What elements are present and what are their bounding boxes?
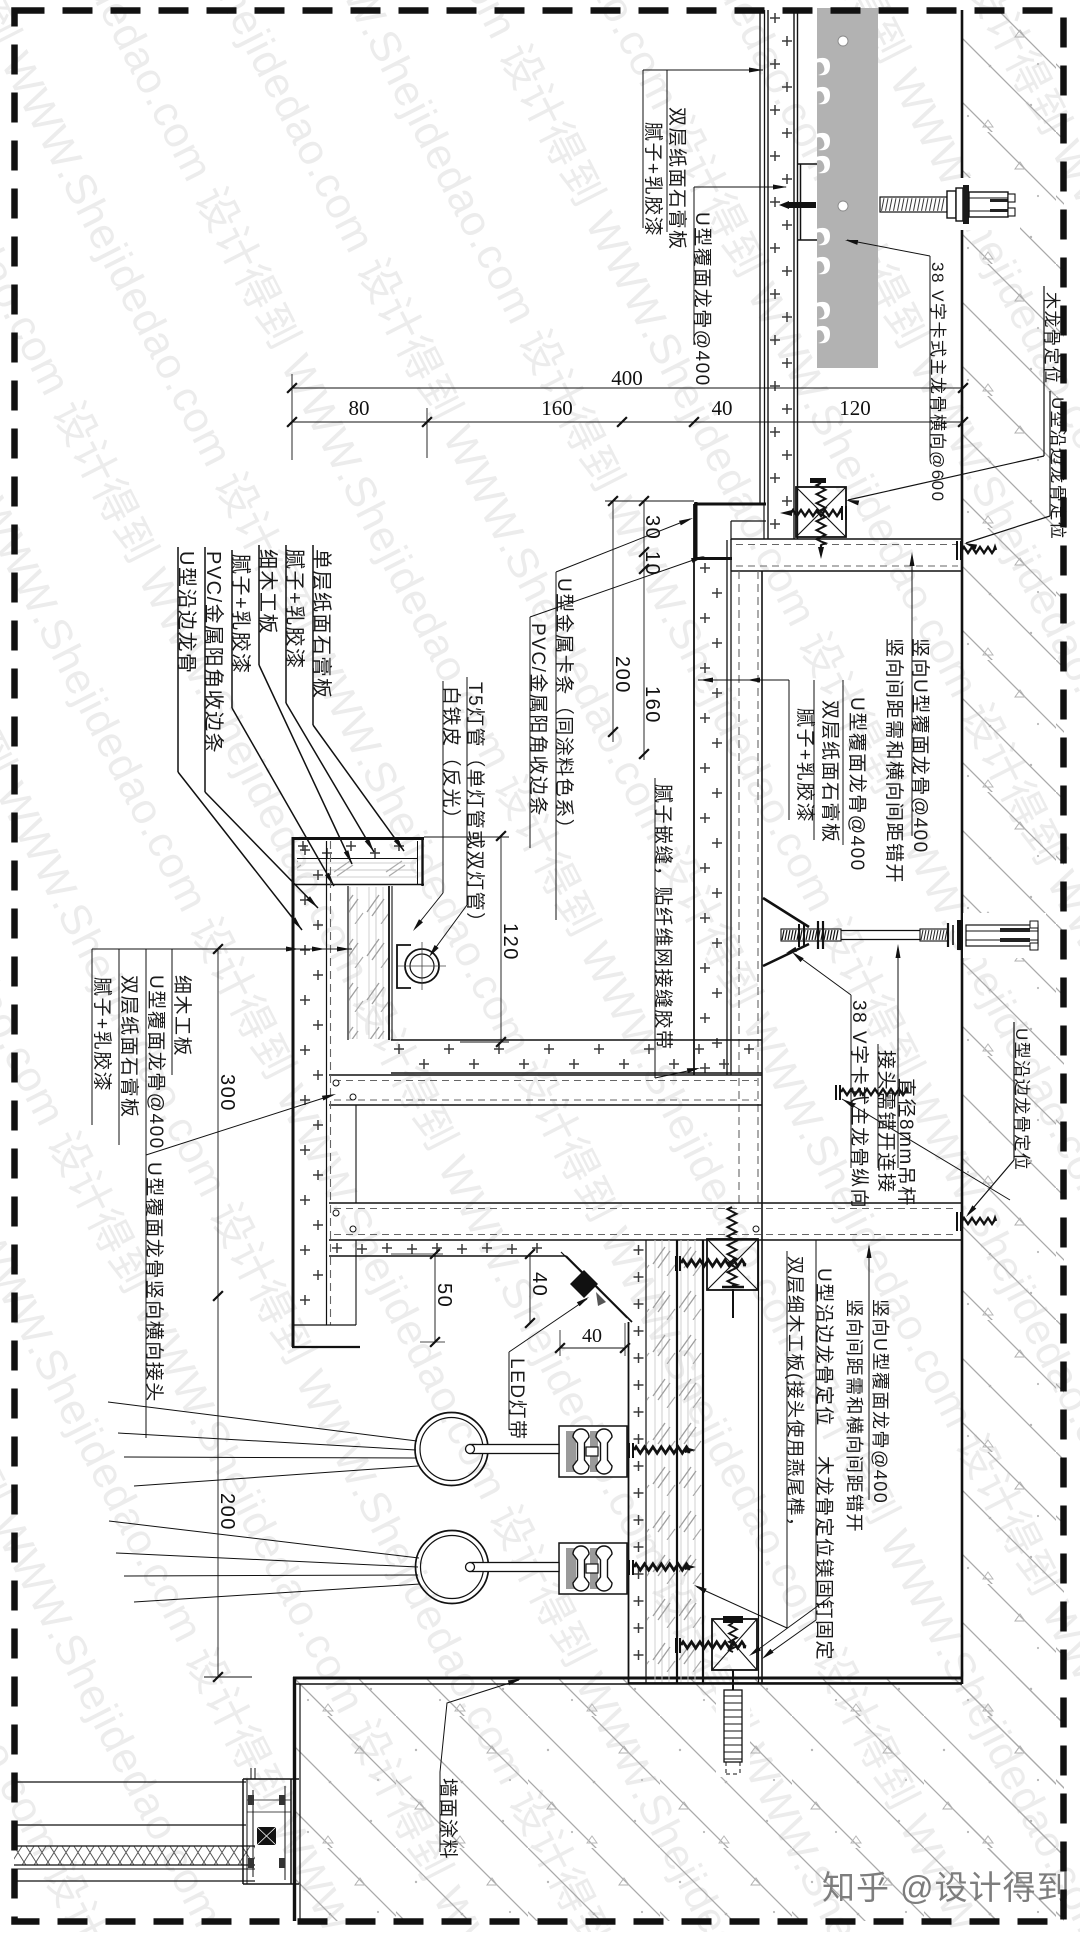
dim 200/30/10/160 vertical <box>612 501 614 742</box>
U-channel clip <box>797 163 817 165</box>
T5 lamp tube <box>405 949 439 983</box>
expansion bolt top <box>960 178 1020 230</box>
cove bottom boards <box>391 1039 762 1041</box>
svg-text:10: 10 <box>641 551 663 576</box>
svg-text:PVC/金属阳角收边条: PVC/金属阳角收边条 <box>202 551 225 754</box>
blocking screw horizontal <box>841 506 843 520</box>
batten screw 4 <box>675 1638 677 1653</box>
svg-text:40: 40 <box>582 1325 602 1347</box>
svg-text:双层纸面石膏板: 双层纸面石膏板 <box>666 107 689 251</box>
label 单层纸面石膏板 <box>312 545 314 725</box>
cross blocking box mid <box>707 1239 758 1290</box>
gypsum with plaster marks <box>634 1245 644 1255</box>
LED spot <box>570 1270 598 1298</box>
connector verticals between bands <box>355 1105 357 1203</box>
svg-text:知乎 @设计得到: 知乎 @设计得到 <box>822 1869 1071 1906</box>
label 腻子嵌缝，贴纤维网接缝胶带 <box>654 778 656 1078</box>
cove left vertical board <box>292 837 295 1347</box>
sill lines lower <box>14 1868 255 1870</box>
svg-text:300: 300 <box>216 1074 238 1112</box>
svg-text:腻子+乳胶漆: 腻子+乳胶漆 <box>91 977 113 1092</box>
window sill line 2 <box>14 1824 246 1826</box>
light rays downlight 1 <box>108 1402 417 1441</box>
dimension 400 <box>291 374 293 460</box>
label U型沿边龙骨定位 (wall top) <box>1049 391 1051 516</box>
label 接头需错开连接 <box>877 1044 879 1168</box>
cross blocking box bottom <box>712 1619 757 1670</box>
svg-text:120: 120 <box>839 396 871 420</box>
window sill line 1 <box>14 1781 246 1783</box>
svg-text:腻子+乳胶漆: 腻子+乳胶漆 <box>283 549 306 670</box>
svg-text:200: 200 <box>611 656 633 694</box>
svg-text:双层细木工板(接头使用燕尾榫，: 双层细木工板(接头使用燕尾榫， <box>785 1256 805 1537</box>
label T5灯管（单灯管或双灯管） <box>466 677 468 905</box>
downlight 2 <box>416 1531 489 1604</box>
hanger bolt rod <box>781 929 841 941</box>
drop-in anchor into slab <box>716 1685 750 1777</box>
label 墙面涂料 <box>439 1772 441 1852</box>
label U型沿边龙骨定位 (wall mid) <box>1013 1022 1015 1160</box>
joint leader <box>842 1099 1010 1200</box>
downlight 1 <box>415 1413 488 1486</box>
dim 50 <box>434 1254 436 1342</box>
svg-text:40: 40 <box>528 1272 550 1297</box>
cove top cap <box>292 837 424 840</box>
hanger rod with spring <box>728 1207 737 1286</box>
batten screw 3 <box>628 1560 630 1575</box>
main furring band with hangers <box>329 1202 962 1204</box>
svg-text:U型覆面龙骨@400: U型覆面龙骨@400 <box>846 697 868 872</box>
svg-text:U型沿边龙骨: U型沿边龙骨 <box>175 551 198 674</box>
horizontal U furring keel band <box>731 538 962 540</box>
svg-text:竖向间距需和横向间距错开: 竖向间距需和横向间距错开 <box>844 1299 864 1533</box>
svg-text:直径8mm吊杆: 直径8mm吊杆 <box>895 1078 917 1207</box>
vertical U keel dashed <box>738 571 740 1203</box>
downlight 1 stem <box>470 1445 559 1454</box>
label 竖向U型覆面龙骨@400 (bottom) <box>868 1246 870 1500</box>
svg-text:30: 30 <box>641 515 663 540</box>
svg-text:PVC/金属阳角收边条: PVC/金属阳角收边条 <box>527 623 549 817</box>
svg-text:38 V字卡式主龙骨纵向: 38 V字卡式主龙骨纵向 <box>848 1000 870 1209</box>
T5 lamp bracket <box>397 945 411 988</box>
V clip arms <box>763 898 809 927</box>
label 木龙骨定位 <box>1043 286 1045 456</box>
batten screw 1 <box>675 1256 677 1271</box>
clip screw <box>788 202 816 208</box>
label U型覆面龙骨@400 (top) <box>694 186 786 188</box>
lower keel band 1 <box>329 1074 762 1076</box>
label PVC/金属阳角收边条 (mid) <box>529 617 531 848</box>
svg-text:腻子嵌缝，贴纤维网接缝胶带: 腻子嵌缝，贴纤维网接缝胶带 <box>652 784 674 1051</box>
svg-text:U型沿边龙骨定位: U型沿边龙骨定位 <box>813 1268 835 1427</box>
keel joint screws <box>333 1080 339 1086</box>
downlight 2 stem <box>470 1563 559 1572</box>
label U型沿边龙骨定位 / 木龙骨定位镁固钉固定 <box>815 1240 817 1620</box>
svg-text:木龙骨定位: 木龙骨定位 <box>1042 292 1061 385</box>
double gypsum board with plaster marks (top band) <box>770 13 780 23</box>
light rays downlight 2 <box>109 1521 419 1558</box>
label box bottom edge <box>628 1682 962 1684</box>
dim 120 <box>500 836 502 1042</box>
hanger bolt anchor in wall <box>963 913 1046 958</box>
svg-text:腻子+乳胶漆: 腻子+乳胶漆 <box>229 554 252 675</box>
dim 300 / 200 vertical <box>217 949 219 1677</box>
insulation zigzag band <box>14 1845 255 1847</box>
label 腻子+乳胶漆 <box>285 545 287 703</box>
keel joint screw <box>835 1085 837 1100</box>
cross blocking box top <box>796 487 846 537</box>
dimensions 80 160 40 120 <box>292 421 963 423</box>
label 细木工板 <box>258 545 260 665</box>
label U型金属卡条（同涂料色系） <box>555 572 557 920</box>
svg-text:T5灯管（单灯管或双灯管）: T5灯管（单灯管或双灯管） <box>464 682 486 933</box>
svg-text:单层纸面石膏板: 单层纸面石膏板 <box>310 549 333 700</box>
svg-text:白铁皮（反光）: 白铁皮（反光） <box>440 686 462 830</box>
svg-text:竖向间距需和横向间距错开: 竖向间距需和横向间距错开 <box>883 638 905 884</box>
svg-text:腻子+乳胶漆: 腻子+乳胶漆 <box>642 122 664 237</box>
dim 40 horizontal <box>560 1347 625 1349</box>
band-to-wall screw <box>956 1212 958 1231</box>
concrete slab hatch bottom <box>293 1677 1064 1921</box>
svg-text:接头需错开连接: 接头需错开连接 <box>875 1050 897 1194</box>
dovetail key joint at y=1543 <box>559 1543 627 1594</box>
label 38 V字卡式主龙骨横向@600 <box>929 256 931 458</box>
double blockboard layers <box>647 1240 676 1683</box>
label 直径8mm吊杆 <box>897 1073 899 1168</box>
svg-text:竖向U型覆面龙骨@400: 竖向U型覆面龙骨@400 <box>909 638 931 854</box>
svg-text:U型覆面龙骨@400: U型覆面龙骨@400 <box>691 212 713 387</box>
svg-text:50: 50 <box>433 1283 455 1308</box>
concrete wall hatch right strip <box>962 10 1064 1921</box>
vertical bulkhead boards <box>693 504 695 1075</box>
gypsum board single layer (top) <box>759 10 761 503</box>
batten screw 2 <box>628 1443 630 1458</box>
svg-text:竖向U型覆面龙骨@400: 竖向U型覆面龙骨@400 <box>870 1299 890 1504</box>
svg-text:细木工板: 细木工板 <box>256 549 279 635</box>
hanger screw vertical <box>810 478 826 483</box>
wall top edge bottom-left <box>293 1677 962 1680</box>
label 腻子+乳胶漆 <box>231 550 233 708</box>
cove left board foot <box>292 1324 356 1326</box>
svg-text:U型覆面龙骨@400: U型覆面龙骨@400 <box>145 975 167 1150</box>
label LED灯带 <box>508 1352 510 1430</box>
lower soffit board <box>329 1255 566 1257</box>
dovetail key joint at y=1426 <box>559 1426 627 1477</box>
label 38V字卡式主龙骨纵向 <box>850 995 852 1168</box>
38 V-type main keel wood block (grey) <box>817 8 878 368</box>
window frame mullion <box>242 1779 244 1884</box>
svg-text:墙面涂料: 墙面涂料 <box>437 1778 459 1860</box>
svg-text:38 V字卡式主龙骨横向@600: 38 V字卡式主龙骨横向@600 <box>928 262 947 503</box>
svg-text:160: 160 <box>641 686 663 724</box>
keel-to-wall screw <box>956 541 958 560</box>
label group left mid <box>92 948 352 950</box>
keel screw holes <box>838 36 848 46</box>
svg-text:120: 120 <box>499 923 521 961</box>
svg-text:腻子+乳胶漆: 腻子+乳胶漆 <box>794 708 816 823</box>
label PVC/金属阳角收边条 <box>204 547 206 792</box>
svg-text:400: 400 <box>611 366 643 390</box>
svg-text:LED灯带: LED灯带 <box>506 1358 528 1440</box>
svg-text:40: 40 <box>712 396 733 420</box>
svg-text:双层纸面石膏板: 双层纸面石膏板 <box>118 975 141 1119</box>
svg-text:木龙骨定位镁固钉固定: 木龙骨定位镁固钉固定 <box>813 1456 835 1661</box>
svg-text:细木工板: 细木工板 <box>171 975 193 1057</box>
label 白铁皮（反光） <box>442 681 444 893</box>
label group right of drop <box>698 679 789 681</box>
label U型沿边龙骨 <box>177 547 179 772</box>
svg-text:80: 80 <box>349 396 370 420</box>
label 竖向U型覆面龙骨@400 (upper) <box>911 632 913 836</box>
svg-text:160: 160 <box>541 396 573 420</box>
label 双层纸面石膏板 / 腻子+乳胶漆 (top) <box>643 69 763 71</box>
svg-text:U型沿边龙骨定位: U型沿边龙骨定位 <box>1012 1028 1031 1171</box>
label 双层细木工板(接头使用燕尾榫，上下层接缝错开) <box>786 1251 788 1628</box>
cove wood blocking vertical <box>347 886 349 1040</box>
label U型覆面龙骨竖向横向接头 <box>145 1155 147 1438</box>
svg-text:U型金属卡条（同涂料色系）: U型金属卡条（同涂料色系） <box>553 578 575 839</box>
wall face line right <box>961 10 964 1684</box>
chamfer with LED strip <box>566 1256 632 1322</box>
svg-text:双层纸面石膏板: 双层纸面石膏板 <box>819 700 842 844</box>
bulkhead face below chamfer <box>628 1322 630 1683</box>
label 上下层接缝错开) leader to box <box>752 1597 830 1654</box>
dim 40 vertical <box>529 1254 531 1323</box>
svg-text:U型覆面龙骨竖向横向接头: U型覆面龙骨竖向横向接头 <box>143 1162 165 1403</box>
svg-text:200: 200 <box>216 1493 238 1531</box>
wall left edge bottom-left <box>293 1677 296 1921</box>
soffit step thick edge <box>694 503 766 506</box>
